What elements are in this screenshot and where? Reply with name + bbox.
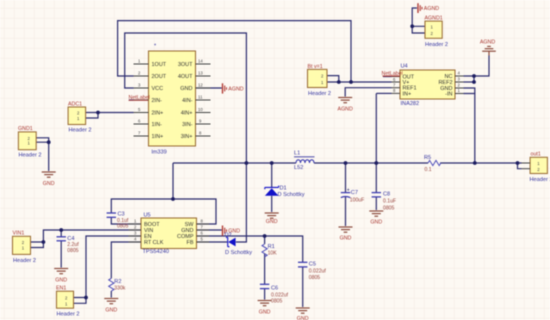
- svg-text:L52: L52: [294, 165, 303, 171]
- wire INA -IN down to rail: [464, 94, 475, 164]
- wire VIN1 to VIN rail: [31, 242, 43, 248]
- junction VCC loop on rail: [245, 161, 249, 165]
- svg-text:GND: GND: [266, 219, 278, 225]
- junction VIN1 pins: [42, 240, 46, 244]
- svg-text:0805: 0805: [67, 248, 78, 254]
- svg-text:C6: C6: [271, 285, 278, 291]
- wire Bt header: [327, 76, 339, 82]
- capacitor C6: [260, 284, 289, 304]
- wire C3 bottom to BOOT: [111, 217, 141, 224]
- wire TPS GND to GND bar: [197, 229, 222, 231]
- svg-text:GND: GND: [180, 86, 192, 92]
- svg-text:2IN-: 2IN-: [152, 98, 163, 104]
- svg-text:+: +: [347, 188, 350, 194]
- ground GND below C7: [339, 227, 353, 242]
- svg-text:Header 2: Header 2: [69, 128, 92, 134]
- ground GND below D1: [265, 213, 279, 225]
- ground GND below C6: [258, 301, 272, 316]
- header EN1: [56, 286, 80, 318]
- junction D1 on rail: [270, 161, 274, 165]
- header out1: [530, 152, 550, 183]
- svg-text:0.022uf: 0.022uf: [271, 292, 289, 298]
- junction C8/IN+ on rail: [374, 161, 378, 165]
- svg-text:C5: C5: [309, 261, 316, 267]
- svg-text:4IN-: 4IN-: [182, 98, 193, 104]
- wire main output rail: [173, 162, 296, 164]
- svg-text:R1: R1: [268, 244, 275, 250]
- svg-text:C4: C4: [67, 236, 74, 242]
- wire D2 anode to vertical: [236, 241, 247, 243]
- header VIN1: [13, 231, 37, 264]
- wire GND1 to ground: [36, 138, 49, 142]
- header ADC1: [68, 101, 92, 133]
- svg-text:VCC: VCC: [152, 86, 164, 92]
- wire VCC loop: [125, 33, 247, 241]
- wire LM339 GND12 to AGND bar: [196, 87, 222, 89]
- power port AGND top-right (sideways bar): [418, 3, 439, 13]
- svg-text:4OUT: 4OUT: [178, 74, 193, 80]
- wire C4 branch: [60, 230, 62, 237]
- junction R1 on COMP line: [263, 234, 267, 238]
- wire RT/CLK to R2: [111, 242, 141, 278]
- svg-text:Header 2: Header 2: [530, 177, 550, 183]
- svg-text:Header 2: Header 2: [13, 258, 36, 264]
- TPS54240 right pins: [177, 219, 209, 247]
- op-amp U1 LM339 body: [149, 44, 196, 156]
- svg-text:GND: GND: [370, 220, 382, 226]
- wire R1 top: [264, 236, 266, 244]
- svg-text:GND1: GND1: [18, 126, 33, 132]
- wire EN1 to EN pin: [74, 298, 87, 304]
- svg-text:GND: GND: [43, 181, 55, 187]
- junction AGND1 pins: [410, 24, 414, 28]
- svg-text:11: 11: [198, 94, 203, 99]
- power port AGND above INA282 (up earth): [480, 39, 496, 55]
- svg-text:14: 14: [198, 58, 203, 63]
- wire INA OUT netlabel stub: [383, 76, 392, 78]
- wire C3 top to SW node: [111, 199, 216, 224]
- svg-text:U4: U4: [401, 64, 408, 70]
- wire INA REF1 to AGND: [345, 88, 391, 97]
- svg-text:3OUT: 3OUT: [178, 62, 193, 68]
- junction EN1 pins: [84, 296, 88, 300]
- svg-text:12: 12: [198, 82, 203, 87]
- svg-text:Header 2: Header 2: [425, 42, 448, 48]
- svg-text:Header 2: Header 2: [57, 312, 80, 318]
- svg-text:GND: GND: [105, 307, 117, 313]
- resistor R5: [424, 155, 441, 173]
- svg-text:2OUT: 2OUT: [152, 74, 167, 80]
- wire C6 to ground: [264, 289, 266, 300]
- svg-text:L1: L1: [294, 151, 300, 157]
- svg-text:INA282: INA282: [401, 101, 420, 107]
- svg-text:GND: GND: [259, 310, 271, 316]
- op-amp U4 INA282 body: [400, 64, 455, 108]
- INA282 left pins: [392, 74, 417, 97]
- svg-text:D2: D2: [225, 233, 232, 239]
- svg-text:VIN1: VIN1: [13, 231, 25, 237]
- net label NetLabel at 2IN-: [129, 95, 150, 101]
- svg-text:0805: 0805: [383, 206, 394, 212]
- svg-text:-IN: -IN: [445, 91, 452, 97]
- svg-text:0.1: 0.1: [425, 167, 432, 173]
- svg-text:GND: GND: [55, 277, 67, 283]
- wire INA NC/REF2 to AGND up: [464, 56, 490, 77]
- junction INA NC pin: [472, 74, 476, 78]
- svg-text:R2: R2: [114, 279, 121, 285]
- diode D1 schottky: [265, 186, 305, 198]
- wire R1 bottom to C6: [264, 254, 266, 285]
- header out1 stubs: [522, 163, 531, 169]
- svg-text:GND: GND: [340, 236, 352, 242]
- svg-text:U5: U5: [144, 212, 151, 218]
- svg-text:AGND1: AGND1: [425, 16, 443, 22]
- wire C5 to ground: [302, 267, 304, 307]
- svg-text:0805: 0805: [309, 275, 320, 281]
- junction out1 branch: [516, 161, 520, 165]
- svg-text:0805: 0805: [117, 223, 128, 229]
- LM339 right pins: [178, 58, 211, 140]
- svg-text:lm339: lm339: [152, 150, 167, 156]
- svg-text:0805: 0805: [271, 299, 282, 305]
- ground GND below C5: [296, 308, 310, 320]
- svg-text:out1: out1: [531, 152, 541, 158]
- power port AGND at LM339 pin12: [223, 83, 244, 93]
- resistor R1: [262, 244, 277, 257]
- wire D1 branch: [271, 163, 273, 187]
- header Bt v=1: [308, 64, 332, 97]
- LM339 left pins: [134, 58, 167, 140]
- wire FB to D2: [197, 241, 228, 243]
- wire C7 branch: [345, 163, 347, 192]
- TPS54240 left pins: [129, 219, 164, 247]
- wire R2 to ground: [110, 291, 112, 298]
- svg-text:AGND: AGND: [338, 107, 353, 113]
- capacitor C3: [107, 212, 129, 230]
- wire out1 header branch: [518, 163, 522, 169]
- capacitor C4: [57, 236, 80, 254]
- svg-text:GND: GND: [297, 316, 309, 320]
- svg-text:10: 10: [198, 107, 203, 112]
- wire AGND1 header to AGND power: [412, 26, 425, 33]
- svg-text:C3: C3: [118, 212, 125, 218]
- capacitor C5: [298, 261, 326, 280]
- junction SW/boot node: [171, 197, 175, 201]
- svg-text:AGND: AGND: [228, 87, 243, 93]
- svg-text:0.1uF: 0.1uF: [383, 198, 396, 204]
- svg-text:3IN-: 3IN-: [182, 122, 193, 128]
- wire INA GND pin: [464, 88, 475, 94]
- svg-text:Header 2: Header 2: [308, 91, 331, 97]
- ground GND below R2: [104, 299, 118, 314]
- wire netlabel stub LM339 2IN-: [129, 99, 134, 101]
- INA282 right pins: [438, 71, 463, 98]
- svg-text:D Schottky: D Schottky: [225, 250, 252, 256]
- svg-text:EN1: EN1: [56, 286, 66, 292]
- junction Bt pins: [337, 80, 341, 84]
- svg-text:AGND: AGND: [480, 39, 495, 45]
- junction INA REF2 pin: [472, 80, 476, 84]
- svg-text:D Schottky: D Schottky: [278, 192, 305, 198]
- svg-text:1OUT: 1OUT: [152, 62, 167, 68]
- ground GND below C8: [369, 211, 383, 226]
- svg-text:0.022uf: 0.022uf: [309, 268, 327, 274]
- svg-text:330k: 330k: [114, 285, 125, 291]
- svg-text:D1: D1: [280, 186, 287, 192]
- power port GND at TPS GND pin: [223, 226, 241, 236]
- junction ADC1 pins: [96, 111, 100, 115]
- header AGND1: [425, 16, 449, 48]
- ground GND below C4: [54, 269, 68, 284]
- svg-text:RT CLK: RT CLK: [144, 240, 164, 246]
- junction GND1 pins: [47, 140, 51, 144]
- wire ADC1 to 2IN+: [86, 113, 98, 119]
- diode D2 schottky: [225, 233, 253, 256]
- svg-text:FB: FB: [186, 240, 193, 246]
- svg-text:100uF: 100uF: [350, 197, 364, 203]
- capacitor C7 polarized: [341, 188, 364, 204]
- svg-text:1IN-: 1IN-: [152, 122, 163, 128]
- ground GND below GND1: [42, 172, 56, 187]
- net label NetLabel at INA282 OUT: [382, 71, 403, 77]
- svg-text:10K: 10K: [268, 251, 278, 257]
- junction C7 on rail: [344, 161, 348, 165]
- svg-text:4IN+: 4IN+: [181, 110, 193, 116]
- svg-text:IN+: IN+: [403, 91, 412, 97]
- header GND1: [18, 126, 42, 158]
- wire C8 / IN+ branch: [375, 93, 377, 192]
- svg-text:2IN+: 2IN+: [152, 110, 164, 116]
- junction C4 on VIN line: [59, 228, 63, 232]
- transistor U5 TPS54240 body: [141, 212, 197, 255]
- junction Bt/V+ node: [349, 80, 353, 84]
- wire 2OUT loop left: [118, 21, 351, 82]
- wire INA IN+: [376, 92, 391, 94]
- svg-text:ADC1: ADC1: [68, 101, 82, 107]
- capacitor C8: [372, 191, 396, 211]
- svg-text:AGND: AGND: [424, 6, 439, 12]
- svg-text:1IN+: 1IN+: [152, 134, 164, 140]
- svg-text:13: 13: [198, 70, 203, 75]
- svg-text:C7: C7: [351, 190, 358, 196]
- junction -IN on rail: [473, 161, 477, 165]
- resistor R2: [109, 278, 126, 291]
- wire SW node to rail: [172, 163, 174, 199]
- svg-text:TPS54240: TPS54240: [143, 249, 169, 255]
- svg-text:Bt v=1: Bt v=1: [308, 64, 323, 70]
- ground AGND below INA282 REF1: [338, 98, 353, 113]
- svg-text:Header 2: Header 2: [19, 153, 42, 159]
- svg-text:C8: C8: [383, 191, 390, 197]
- svg-text:3IN+: 3IN+: [181, 134, 193, 140]
- wire COMP line to R1 and C5: [197, 236, 303, 262]
- inductor L1: [294, 151, 315, 171]
